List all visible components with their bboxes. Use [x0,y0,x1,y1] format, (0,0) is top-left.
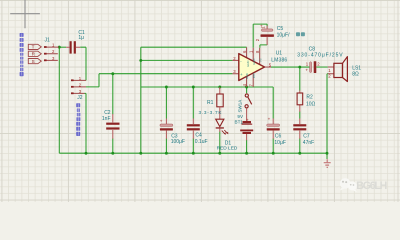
wire: speaker pin2 down to rail [326,74,329,154]
sheet origin crosshair [10,0,40,28]
wire: C1 right to J2 pin1 [80,47,86,80]
wire: output pin5 to C8 [271,66,310,68]
svg-text:J1: J1 [45,37,51,43]
svg-text:+: + [268,117,271,122]
wire: C8 to speaker pin1 [316,66,327,68]
blue note: 接3.5mm音频输出 (drawn as smudges) [20,33,24,76]
wire: battery bottom to rail [246,140,248,153]
wire: J1 vertical down [58,47,60,153]
capacitor C8 (polarized, output) [297,46,343,73]
svg-text:9V: 9V [237,114,244,119]
LED D1 [216,119,238,151]
wire: C3 stubs [165,87,167,153]
svg-text:LM386: LM386 [271,57,287,63]
capacitor C5 (polarized, gain) [255,24,305,45]
wire: ground rail [59,152,327,154]
switch SW1A [238,94,252,121]
svg-text:GAIN: GAIN [252,59,256,65]
svg-text:J2: J2 [77,95,83,101]
svg-text:GND: GND [245,73,249,79]
svg-text:VS: VS [258,58,262,62]
svg-text:47nF: 47nF [303,140,314,146]
capacitor C6 (polarized) [267,117,286,147]
wire: C6 bottom to rail [272,139,274,154]
ground symbol [324,159,331,167]
resistor R2 [297,93,315,108]
pin stubs [232,60,238,73]
svg-text:BYP: BYP [252,73,256,78]
svg-text:10μF/: 10μF/ [277,32,290,38]
wire: ground stub below rail [326,153,328,159]
capacitor C4 [187,119,208,146]
battery BT1 9V [235,114,254,141]
wire: pin6 top rail [141,46,247,48]
capacitor C3 (polarized) [160,118,185,145]
wire: -input net to op-amp pin2 [141,59,233,61]
svg-text:1μ: 1μ [78,35,84,41]
svg-text:C4: C4 [195,133,202,139]
svg-text:R2: R2 [306,95,313,101]
svg-text:R1: R1 [207,100,214,106]
wire: +9V horizontal rail [141,87,273,119]
svg-text:10μF: 10μF [274,140,286,146]
svg-text:C8: C8 [309,46,316,52]
connector J2 [71,76,86,101]
svg-text:10Ω: 10Ω [306,102,316,108]
svg-text:C2: C2 [104,110,111,116]
watermark: wechat logo + BG6LH [340,178,387,192]
svg-text:+: + [246,117,249,122]
svg-text:3.3-3.7K: 3.3-3.7K [199,110,223,115]
wire: R2 branch down [299,67,301,90]
svg-text:0.1uF: 0.1uF [195,139,208,145]
speaker LS1 [328,57,362,82]
wire: LED bottom to rail [219,132,221,154]
wire: J2 pin2 up to +input net [86,74,99,87]
svg-text:BG6LH: BG6LH [356,180,387,192]
svg-text:8Ω: 8Ω [352,71,359,77]
resistor R1 [199,87,224,119]
wire: C4 stubs [192,87,194,153]
connector J1 [44,37,59,61]
wire: J1 pin1 to C1 [59,46,66,48]
wire: power vertical x=140.8 [140,47,142,153]
svg-text:S: S [32,59,35,64]
svg-text:U1: U1 [276,50,283,56]
TRS jack tags [28,44,41,63]
svg-text:100μF: 100μF [171,139,185,145]
capacitor C2 [102,110,120,139]
wire: C5 gain loop [253,24,267,48]
blue note: 接10K电位器 (drawn as smudges) [76,103,80,136]
capacitor C7 [293,119,314,146]
svg-text:SW1A: SW1A [238,100,243,113]
svg-text:330-470μF/25V: 330-470μF/25V [297,53,343,59]
svg-text:C6: C6 [275,134,282,140]
svg-text:C5: C5 [277,26,284,32]
wire: switch top stub [246,87,248,93]
capacitor C1 [66,30,85,54]
svg-text:1nF: 1nF [102,116,111,122]
op-amp U1 LM386 [232,47,287,87]
wire: R2 to C7 [299,112,301,154]
wire: C2 branch [112,74,114,154]
wire: J2 pin3 to rail [85,93,87,153]
svg-text:GAIN: GAIN [246,61,250,67]
svg-text:T: T [32,45,35,50]
wire: +input net to op-amp pin3 [99,73,232,75]
svg-text:+: + [305,68,308,73]
svg-text:+: + [160,118,163,123]
svg-text:C7: C7 [303,133,310,139]
svg-text:BT1: BT1 [235,120,244,125]
svg-text:RED LED: RED LED [217,145,238,151]
